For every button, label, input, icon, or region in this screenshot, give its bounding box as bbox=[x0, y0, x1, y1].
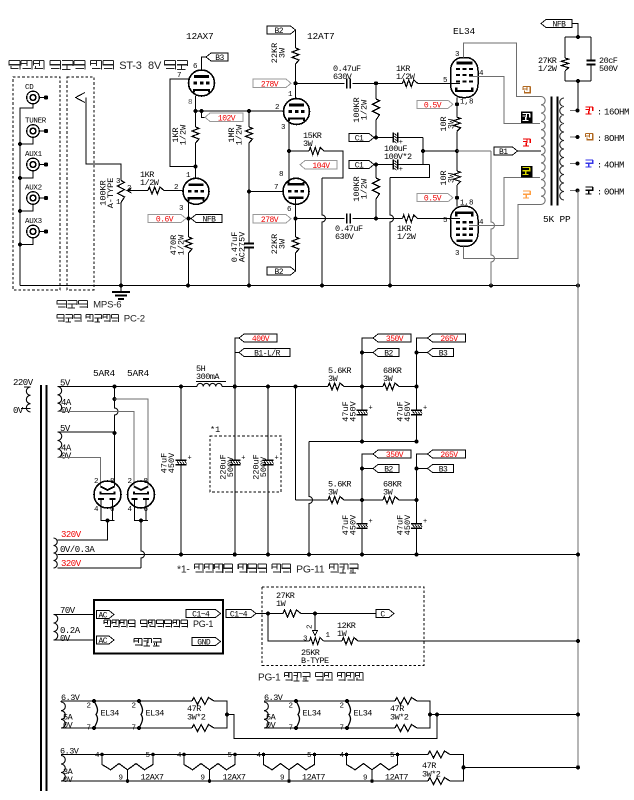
heater filament 12AX7 bbox=[177, 752, 246, 783]
wire: branch to V6 pin8 bbox=[115, 399, 149, 487]
wire: C2 to ground bus bbox=[248, 248, 250, 286]
junction dot upper return bbox=[307, 553, 311, 557]
svg-text:AC275V: AC275V bbox=[238, 231, 248, 263]
junction dot AUX1 bbox=[18, 176, 22, 180]
secondary tap 0 ohm bbox=[570, 190, 578, 192]
svg-text:PG-1: PG-1 bbox=[258, 673, 281, 684]
ground symbol bbox=[120, 286, 122, 293]
wire: ground drop x491 with hops bbox=[491, 151, 495, 286]
net tag B2 lower bbox=[267, 267, 296, 275]
wire: HV 0V to cap node bbox=[58, 554, 182, 556]
svg-text:0V: 0V bbox=[63, 775, 74, 785]
junction dot C1 node upper bbox=[374, 136, 378, 140]
svg-text:B2: B2 bbox=[384, 350, 393, 359]
wire: caps right rail vertical bbox=[422, 138, 424, 165]
svg-text:1,8: 1,8 bbox=[460, 99, 474, 107]
svg-text:TUNER: TUNER bbox=[25, 118, 47, 126]
svg-text:12AT7: 12AT7 bbox=[307, 31, 335, 42]
wire: C5 to jog bbox=[398, 164, 430, 166]
svg-text:7: 7 bbox=[289, 725, 294, 733]
tube V1a 12AX7 upper triode bbox=[177, 63, 215, 107]
junction dot heater-bus row3 bbox=[576, 765, 580, 769]
voltage tag 265V bbox=[428, 334, 466, 342]
resistor R4 470R 1/2W cathode bbox=[169, 234, 192, 255]
wire: V6 plates to 320V bottom with hop bbox=[141, 521, 145, 569]
junction dot B+ drop bbox=[294, 385, 298, 389]
title text: relay selector board ST-3 8V bbox=[9, 61, 20, 70]
input jack AUX3 bbox=[25, 218, 48, 238]
wire: 278V node to R8 bbox=[295, 219, 297, 238]
EL34 heater filament bbox=[289, 699, 322, 733]
svg-text:EL34: EL34 bbox=[146, 709, 165, 719]
capacitor 47uF 450V filter a bbox=[341, 400, 373, 421]
wire: grid resistor to 12AX7 lower grid bbox=[164, 190, 183, 192]
input jack AUX2 bbox=[25, 185, 48, 205]
svg-text:9: 9 bbox=[280, 775, 285, 783]
svg-text:0V: 0V bbox=[61, 452, 72, 462]
svg-text:0V: 0V bbox=[60, 634, 71, 644]
wire: pot wiper to grid resistor bbox=[133, 190, 148, 192]
junction dot V5 plates bbox=[106, 519, 110, 523]
wire: C8 to 0V rail bbox=[180, 465, 182, 555]
resistor R16 27KR 1W bbox=[276, 591, 301, 617]
junction dot B2 node bbox=[360, 498, 364, 502]
EL34 heater filament bbox=[132, 699, 165, 733]
wire: common node to ground drop bbox=[457, 150, 491, 152]
junction dot wiper node bbox=[313, 612, 317, 616]
svg-text:7: 7 bbox=[274, 184, 279, 192]
svg-text:3W*2: 3W*2 bbox=[187, 713, 206, 723]
svg-text:PC-2: PC-2 bbox=[124, 314, 145, 325]
wire: heater rail bottom row1 bbox=[61, 727, 192, 729]
svg-text:500V: 500V bbox=[599, 64, 619, 74]
heater winding 6.3V 5A row1 bbox=[61, 693, 81, 731]
wire: R13 to common node bbox=[456, 131, 458, 151]
wire: B+ to tags bbox=[235, 338, 239, 387]
capacitor C5 100uF bias lower bbox=[392, 160, 394, 170]
net tag AC 2 bbox=[97, 636, 115, 644]
svg-text:16OHM: 16OHM bbox=[604, 108, 629, 118]
wire: 70V to bias board AC1 bbox=[54, 614, 95, 616]
svg-text:EL34: EL34 bbox=[354, 709, 373, 719]
wire: C1 node to C4 bbox=[376, 137, 393, 139]
wire: R4 to ground bus bbox=[188, 253, 190, 286]
junction dot TUNER bbox=[18, 142, 22, 146]
svg-text:B3: B3 bbox=[215, 54, 224, 63]
junction dot grid node upper bbox=[374, 81, 378, 85]
0V rail wire bbox=[58, 554, 579, 556]
wire: upper filter ground return with hop bbox=[309, 441, 417, 443]
svg-text:1/2W: 1/2W bbox=[177, 234, 187, 255]
resistor 47R 3W*2 hum row3 bbox=[422, 751, 450, 785]
wire: TUNER jack stub bbox=[20, 137, 33, 144]
junction dot cathode common bbox=[455, 149, 459, 153]
rectifier winding 5V #1 bbox=[58, 379, 72, 417]
resistor R7 15KR 3W tail bbox=[303, 131, 324, 155]
junction dot bias left bbox=[266, 612, 270, 616]
svg-text:*1: *1 bbox=[210, 425, 220, 435]
main ground bus wire bbox=[20, 285, 578, 287]
svg-text:+: + bbox=[275, 454, 279, 462]
wire: row3 center to right bus bbox=[464, 766, 579, 768]
resistor R11 100KR 1/2W grid return lower bbox=[352, 176, 380, 202]
svg-text:5: 5 bbox=[390, 752, 395, 760]
voltage tag 102V bbox=[205, 113, 243, 122]
svg-text:A-TYPE: A-TYPE bbox=[106, 178, 116, 209]
wire: 0V no2 to V5 pin2 bbox=[58, 458, 101, 487]
svg-text:B-TYPE: B-TYPE bbox=[301, 656, 329, 666]
junction dot grid node lower bbox=[374, 217, 378, 221]
svg-text:MPS-6: MPS-6 bbox=[93, 300, 121, 311]
input jack TUNER bbox=[25, 118, 48, 138]
wire: NFB network bottom rail bbox=[565, 80, 591, 82]
svg-text:3: 3 bbox=[179, 205, 184, 213]
choke L1 5H 300mA bbox=[196, 364, 226, 387]
svg-text:B2: B2 bbox=[384, 466, 393, 475]
junction dot V2b grid node bbox=[247, 190, 251, 194]
svg-text:1: 1 bbox=[186, 172, 191, 180]
output transformer T1 5K PP primary winding bbox=[541, 97, 545, 205]
heater winding 6.3V 5A row2 bbox=[264, 693, 284, 731]
EL34 heater filament bbox=[340, 699, 373, 733]
svg-text:320V: 320V bbox=[61, 530, 82, 540]
net tag B3 bbox=[428, 349, 454, 357]
wire: V3 cathode bbox=[456, 98, 458, 105]
input jack CD bbox=[25, 84, 48, 104]
wire: pot to 12KR bbox=[324, 640, 343, 642]
resistor R8 22KR 3W plate load lower bbox=[270, 234, 299, 254]
wire: V3 plate to OPT top bbox=[464, 43, 542, 97]
svg-text:1/2W: 1/2W bbox=[179, 124, 189, 145]
svg-text:220V: 220V bbox=[13, 378, 34, 388]
resistor R10 100KR 1/2W grid return upper bbox=[352, 97, 380, 123]
svg-text:1/2W: 1/2W bbox=[360, 99, 370, 120]
wire: heater rails row2 bbox=[264, 700, 395, 702]
wire: 5.6KR to B2 node bbox=[344, 386, 383, 388]
wire: 0 ohm tap to ground bus and down page right bus bbox=[577, 191, 579, 768]
tube V3 EL34 upper bbox=[443, 51, 484, 107]
wire: R14 to 0.5V lower bbox=[456, 185, 458, 198]
svg-text:7: 7 bbox=[132, 725, 137, 733]
wire: B+ to C9 and to 0V bbox=[234, 387, 236, 461]
svg-text:2: 2 bbox=[132, 703, 137, 711]
svg-text:3W: 3W bbox=[447, 118, 457, 129]
wire: AUX1 jack stub bbox=[20, 171, 33, 178]
wire: pot bottom to ground bus bbox=[120, 203, 122, 286]
wire: 27KR to wiper node bbox=[301, 613, 315, 615]
wire: C1~4 tag to bias network bbox=[256, 613, 283, 615]
svg-text:0V/0.3A: 0V/0.3A bbox=[60, 545, 95, 555]
svg-text:0.6V: 0.6V bbox=[156, 216, 174, 225]
resistor R12 1KR 1/2W grid stopper lower bbox=[397, 215, 418, 242]
wire: input ground bus left vertical bbox=[20, 104, 33, 286]
junction dot C10 bottom bbox=[266, 553, 270, 557]
junction dot 5V tap no2 bbox=[113, 431, 117, 435]
svg-text:5: 5 bbox=[228, 752, 233, 760]
wire: caps rail to cathode junction bbox=[423, 150, 457, 152]
svg-text:B2: B2 bbox=[274, 27, 283, 36]
wire: row2 center to right bus bbox=[430, 714, 578, 716]
wire: row3 junction bbox=[450, 755, 464, 782]
net tag B1-L/R bbox=[239, 349, 290, 357]
heater winding 6.3V 3A row3 bbox=[60, 747, 80, 786]
wire: wiper node to C tag bbox=[315, 613, 376, 615]
net tag B2 bbox=[373, 465, 399, 473]
svg-text:5: 5 bbox=[146, 752, 151, 760]
wire: signal node to R5 bbox=[248, 111, 250, 127]
voltage tag 0.6V bbox=[148, 215, 186, 223]
capacitor C6 0.47uF 630V lower bbox=[335, 214, 363, 243]
output transformer secondary winding bbox=[560, 98, 564, 200]
junction dot C10 top bbox=[266, 385, 270, 389]
wire: B3 node to cap and down bbox=[416, 387, 418, 411]
junction dot C9 bottom bbox=[233, 553, 237, 557]
svg-text:1W: 1W bbox=[276, 599, 287, 609]
net tag GND inside bbox=[192, 638, 221, 646]
svg-text:9: 9 bbox=[119, 775, 124, 783]
net tag AC 1 bbox=[97, 611, 115, 619]
svg-text:PG-11: PG-11 bbox=[296, 565, 325, 576]
svg-text:4: 4 bbox=[128, 506, 133, 514]
junction dot cap a bottom bbox=[360, 440, 364, 444]
resistor R15 27KR 1/2W feedback bbox=[538, 37, 569, 81]
wire: C4 to right rail bbox=[398, 137, 423, 139]
tube V2a 12AT7 upper triode bbox=[275, 91, 310, 132]
svg-text:+: + bbox=[241, 454, 245, 462]
net tag C1~4 outside bbox=[226, 610, 256, 618]
wire: B2 node to tags bbox=[362, 454, 373, 500]
wire: 5V tap no2 to V5 pin8 bbox=[58, 431, 115, 433]
wire: caps to ground via x390 with hop bbox=[390, 165, 430, 286]
wire: rectifier V5 pin8 drop with hop bbox=[115, 387, 119, 487]
resistor R13 10R 3W cathode upper bbox=[439, 116, 461, 131]
svg-text:B1: B1 bbox=[499, 148, 508, 157]
svg-text:0OHM: 0OHM bbox=[604, 188, 624, 198]
junction dot 0.6V node bbox=[187, 217, 191, 221]
wire: B2 node to cap and down bbox=[361, 387, 363, 411]
net tag C output bbox=[376, 610, 394, 618]
svg-text:B3: B3 bbox=[439, 350, 448, 359]
junction dot row1 center bbox=[225, 713, 229, 717]
dashed selector box 2 bbox=[67, 77, 94, 290]
svg-text:EL34: EL34 bbox=[101, 709, 120, 719]
bias winding 70V bbox=[54, 606, 81, 644]
svg-text:0V: 0V bbox=[13, 406, 24, 416]
svg-text:+: + bbox=[423, 518, 427, 526]
tube V6 5AR4 rectifier bbox=[128, 478, 155, 514]
net tag NFB at cathode bbox=[191, 215, 222, 223]
wire: NFB tag to network bbox=[572, 24, 578, 38]
wire: bias left down to pot bbox=[268, 614, 310, 642]
primary color label yellow on black bbox=[521, 166, 533, 178]
resistor 68KR 3W filter bbox=[383, 366, 402, 390]
junction dot C1 node lower bbox=[374, 163, 378, 167]
potentiometer VR1 100KR A-TYPE bbox=[99, 178, 134, 209]
junction dot bias-bus bbox=[576, 639, 580, 643]
EL34 heater filament bbox=[87, 699, 120, 733]
svg-text:3W: 3W bbox=[278, 238, 288, 249]
junction dot 5V tap bbox=[113, 385, 117, 389]
junction dot pin8 branch bbox=[113, 397, 117, 401]
capacitor 47uF 450V filter b bbox=[396, 400, 428, 421]
svg-text:8: 8 bbox=[279, 171, 284, 179]
capacitor C4 100uF bias upper bbox=[393, 133, 403, 148]
wire: heater rail top row1 bbox=[61, 700, 192, 702]
svg-text:C1: C1 bbox=[355, 135, 364, 144]
net tag C1~4 inside bbox=[186, 610, 221, 618]
svg-text:12AX7: 12AX7 bbox=[186, 31, 214, 42]
svg-text:400V: 400V bbox=[252, 335, 270, 344]
svg-text:5: 5 bbox=[443, 77, 448, 85]
wire: 0.5V node to R13 bbox=[456, 104, 458, 117]
capacitor C7 20cF 500V feedback bbox=[587, 37, 619, 81]
signal flow arrow from selector bbox=[76, 93, 86, 103]
wire: grid node to R10 bbox=[375, 83, 377, 99]
svg-text:5: 5 bbox=[307, 752, 312, 760]
wire: V3 screen to UL tap bbox=[469, 77, 540, 124]
svg-text:2: 2 bbox=[340, 703, 345, 711]
svg-text:3W: 3W bbox=[303, 139, 314, 149]
voltage tag 278V upper bbox=[253, 79, 291, 88]
heater filament 12AX7 bbox=[95, 752, 164, 783]
voltage tag 0.5V lower bbox=[417, 194, 453, 202]
wire: V1a plate to B3 tag bbox=[202, 57, 207, 70]
wire: B+ drop to lower filter row bbox=[295, 387, 297, 501]
secondary tap 8 ohm bbox=[570, 136, 578, 138]
secondary tap 4 ohm bbox=[570, 163, 578, 165]
svg-text:2: 2 bbox=[275, 104, 280, 112]
junction dot 0.5V lower bbox=[455, 196, 459, 200]
wire: V4 cathode bbox=[456, 198, 458, 207]
rectifier winding 5V #2 bbox=[58, 424, 72, 462]
svg-text:8V: 8V bbox=[148, 60, 162, 72]
svg-text:104V: 104V bbox=[312, 162, 330, 171]
junction dot NFB bottom bbox=[576, 79, 580, 83]
resistor R9 1KR 1/2W grid stopper upper bbox=[396, 64, 418, 87]
wire: cap to grid node upper bbox=[353, 82, 403, 84]
svg-text:8: 8 bbox=[144, 478, 149, 486]
wire: cathode node to R7 bbox=[289, 150, 309, 152]
svg-text:12AX7: 12AX7 bbox=[141, 773, 164, 783]
svg-text:4: 4 bbox=[177, 752, 182, 760]
svg-text:NFB: NFB bbox=[553, 21, 567, 30]
wire: V1a cathode down bbox=[195, 96, 197, 127]
svg-text:278V: 278V bbox=[261, 80, 279, 89]
junction dot SRPP midpoint bbox=[194, 165, 198, 169]
svg-text:1: 1 bbox=[326, 632, 331, 640]
junction dot heater-bus row12 bbox=[576, 713, 580, 717]
wire: row1 center jog to right bbox=[227, 715, 437, 739]
wire: V1b plate lead bbox=[195, 167, 197, 179]
wire: 278V node to coupling cap upper bbox=[296, 82, 345, 84]
svg-text:1: 1 bbox=[288, 91, 293, 99]
svg-text:5AR4: 5AR4 bbox=[93, 368, 116, 379]
wire: V2a cathode to V2b cathode vertical bbox=[288, 122, 290, 182]
wire: choke to B+ nodes bbox=[222, 386, 328, 388]
svg-text:2: 2 bbox=[289, 703, 294, 711]
svg-text:1/2W: 1/2W bbox=[360, 178, 370, 199]
junction dot B3 node bbox=[415, 498, 419, 502]
svg-text:12AX7: 12AX7 bbox=[223, 773, 246, 783]
wire: B2 node to cap and down bbox=[361, 500, 363, 524]
junction dot 278V node lower bbox=[294, 217, 298, 221]
wire: selector output to volume pot bbox=[86, 98, 121, 181]
wire: 5.6KR to B2 node bbox=[344, 499, 383, 501]
svg-text:C1: C1 bbox=[355, 162, 364, 171]
svg-text::: : bbox=[597, 188, 602, 198]
capacitor C8 47uF 450V reservoir bbox=[160, 452, 192, 473]
svg-text:3: 3 bbox=[303, 636, 308, 644]
svg-text:+: + bbox=[369, 518, 373, 526]
junction dot row1 jog joins bbox=[435, 713, 439, 717]
primary color label orange bbox=[523, 191, 530, 198]
wire: drop to lower row bbox=[296, 499, 329, 501]
svg-text:B1-L/R: B1-L/R bbox=[254, 350, 281, 359]
wire: node to V2b grid bbox=[249, 191, 283, 193]
junction dot R5 top bbox=[247, 109, 251, 113]
wire: R3 bottom to midpoint bbox=[195, 143, 197, 167]
junction dot 0.5V upper bbox=[455, 102, 459, 106]
svg-text:2: 2 bbox=[87, 703, 92, 711]
wire: AUX2 jack stub bbox=[20, 204, 33, 211]
resistor 5.6KR 3W filter bbox=[328, 480, 351, 504]
wire: 68KR to B3 node bbox=[399, 386, 417, 388]
tube V2b 12AT7 lower triode flipped bbox=[274, 171, 309, 214]
svg-text:3: 3 bbox=[281, 124, 286, 132]
junction dot AUX2 bbox=[18, 209, 22, 213]
wire: R9 to EL34 grid upper bbox=[418, 82, 461, 84]
wire: V2a plate lead bbox=[295, 83, 297, 98]
svg-text:B2: B2 bbox=[274, 268, 283, 277]
svg-text:8: 8 bbox=[110, 478, 115, 486]
svg-text:EL34: EL34 bbox=[453, 26, 476, 37]
capacitor 47uF 450V filter b bbox=[396, 514, 428, 535]
svg-text:1/2W: 1/2W bbox=[396, 72, 416, 82]
resistor R17 12KR 1W bbox=[337, 621, 358, 645]
junction dot row2 center bbox=[428, 713, 432, 717]
wire: V1b cathode to 0.6V node bbox=[188, 202, 190, 219]
wire: NFB network top rail bbox=[565, 36, 591, 38]
svg-text:2: 2 bbox=[94, 478, 99, 486]
capacitor 47uF 450V filter a bbox=[341, 514, 373, 535]
capacitor C3 0.47uF 630V upper bbox=[333, 64, 361, 88]
wire: heater rails row3 bbox=[61, 754, 428, 756]
resistor R2 1KR 1/2W grid bbox=[140, 170, 164, 194]
dashed box PG-11 caps bbox=[210, 436, 281, 492]
power transformer core bars bbox=[40, 385, 42, 791]
junction dot cap a bottom bbox=[360, 553, 364, 557]
net tag B1 at OPT center tap bbox=[494, 147, 518, 155]
wire: 5V tap no1 to B+ rail bbox=[58, 386, 198, 388]
potentiometer 25KR B-TYPE bbox=[301, 614, 331, 667]
junction dots on ground bus bbox=[186, 284, 190, 288]
wire: B1 tag to center tap bbox=[518, 150, 542, 152]
svg-text:12AT7: 12AT7 bbox=[385, 773, 408, 783]
junction dot V6 plates bbox=[139, 519, 143, 523]
svg-text:+: + bbox=[188, 454, 192, 462]
junction dot row3 center bbox=[462, 765, 466, 769]
junction dot cathode node bbox=[194, 109, 198, 113]
svg-text:4: 4 bbox=[257, 752, 262, 760]
svg-text:278V: 278V bbox=[261, 216, 279, 225]
resistor 68KR 3W filter bbox=[383, 480, 402, 504]
svg-text:320V: 320V bbox=[61, 559, 82, 569]
net tag C1 upper bbox=[349, 134, 374, 142]
junction dot B2 node bbox=[360, 385, 364, 389]
text: selector MPS-6 bbox=[57, 301, 66, 309]
svg-text:1/2W: 1/2W bbox=[235, 124, 245, 145]
heater filament 12AT7 bbox=[340, 752, 409, 783]
